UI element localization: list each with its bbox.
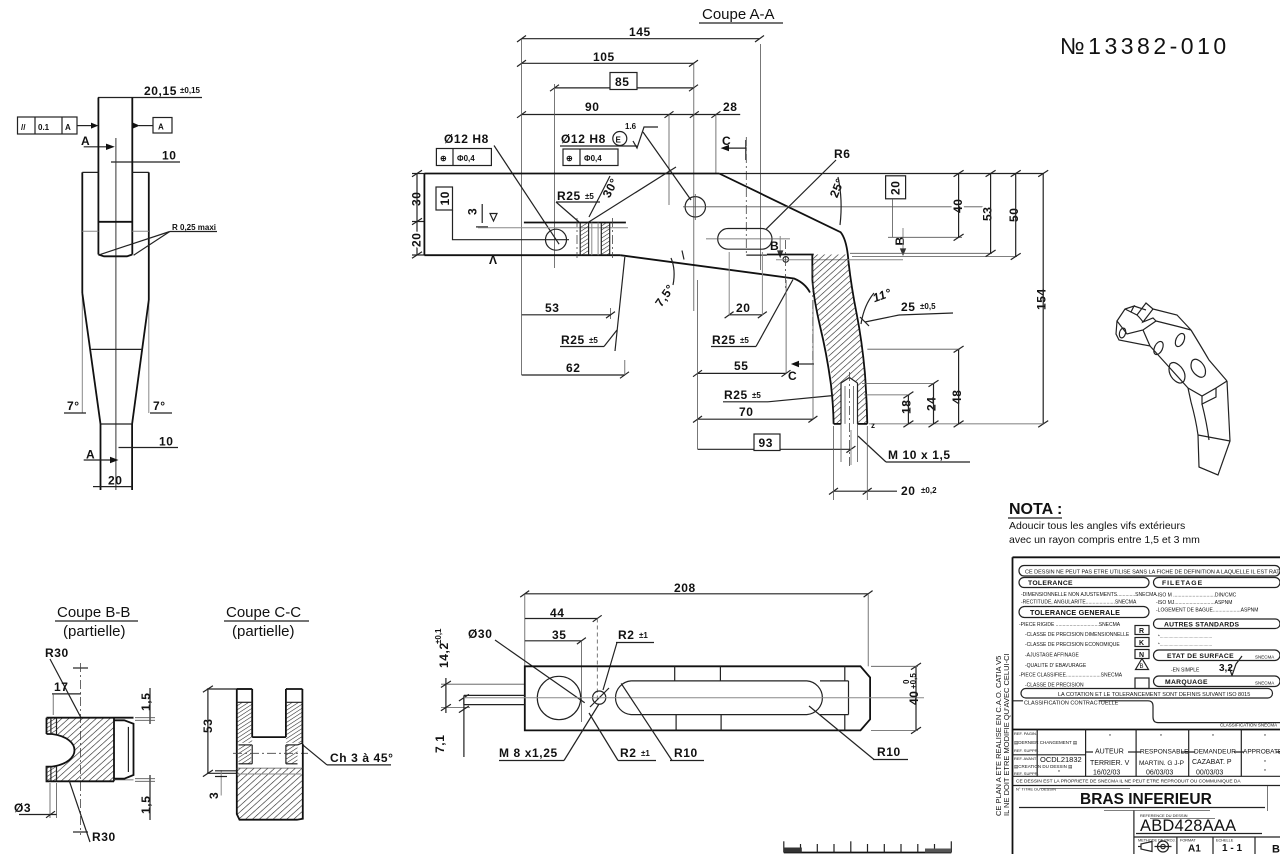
svg-text:3: 3 bbox=[466, 208, 480, 215]
label R25 ±5 third bbox=[711, 280, 793, 348]
dimension 25 ±0,5 bbox=[860, 300, 953, 326]
datum A box bbox=[132, 118, 172, 134]
svg-text:R 0,25 maxi: R 0,25 maxi bbox=[172, 223, 216, 232]
label M 8 x1,25 with leader bbox=[499, 704, 599, 761]
svg-text:ABD428AAA: ABD428AAA bbox=[1140, 817, 1236, 835]
hole Ø12 right bbox=[683, 194, 990, 220]
side rotated text CATIA note bbox=[994, 653, 1011, 816]
dimension 20 bottom bbox=[93, 474, 132, 488]
svg-text:1,5: 1,5 bbox=[139, 796, 153, 814]
dimension 208 bbox=[520, 581, 872, 666]
pocket wall ticks bbox=[675, 666, 845, 730]
dimension 90 and 28 bbox=[517, 100, 740, 118]
svg-text:*.............................: *.......................................… bbox=[1158, 642, 1212, 647]
svg-text:SNECMA: SNECMA bbox=[1255, 655, 1274, 660]
svg-text:N° TITRE DU DESSIN: N° TITRE DU DESSIN bbox=[1016, 787, 1056, 792]
svg-text:CLASSIFICATION SNECMA: CLASSIFICATION SNECMA bbox=[1220, 723, 1277, 728]
svg-text:*: * bbox=[1264, 760, 1266, 766]
svg-text:R25: R25 bbox=[561, 333, 585, 347]
oblong slot bbox=[706, 229, 790, 250]
DEMANDEUR cell bbox=[1192, 734, 1236, 777]
face lower-left edge bbox=[1150, 346, 1188, 388]
dimension 50 vertical bbox=[1007, 170, 1021, 260]
svg-text:ETAT DE SURFACE: ETAT DE SURFACE bbox=[1167, 653, 1234, 660]
svg-text:A: A bbox=[81, 134, 90, 148]
svg-text:REF. SUPPR.: REF. SUPPR. bbox=[1014, 771, 1039, 776]
svg-text:FORMAT: FORMAT bbox=[1180, 839, 1196, 843]
view: Coupe A-A section bbox=[410, 6, 1049, 500]
break line bbox=[91, 348, 142, 350]
svg-text:R10: R10 bbox=[674, 746, 698, 760]
svg-text:-ISO MJ.......................: -ISO MJ.............................ASPN… bbox=[1156, 600, 1232, 606]
dimension 1,5 bottom right bbox=[135, 775, 155, 820]
svg-text:-RECTITUDE, ANGULARITE........: -RECTITUDE, ANGULARITE..................… bbox=[1021, 600, 1137, 606]
B-B cutting trace gray bbox=[776, 259, 903, 261]
svg-text:35: 35 bbox=[552, 628, 567, 642]
part number No 13382-010 bbox=[1060, 33, 1230, 59]
svg-text:-PIECE CLASSIFIEE.............: -PIECE CLASSIFIEE.......................… bbox=[1019, 673, 1123, 679]
svg-text:R: R bbox=[1139, 628, 1144, 635]
svg-text:208: 208 bbox=[674, 581, 696, 595]
extension lines top dims bbox=[522, 39, 761, 375]
APPROBATEUR cell bbox=[1243, 734, 1280, 775]
svg-text:48: 48 bbox=[950, 389, 964, 404]
svg-text:⊕: ⊕ bbox=[440, 154, 447, 163]
svg-text:20: 20 bbox=[901, 484, 916, 498]
svg-text:53: 53 bbox=[981, 206, 995, 221]
AUTEUR cell bbox=[1090, 734, 1130, 777]
outer borders bbox=[1013, 556, 1280, 558]
svg-text:APPROBATE: APPROBATE bbox=[1243, 749, 1280, 756]
svg-text:Coupe B-B: Coupe B-B bbox=[57, 604, 130, 621]
dimension 48 vertical bbox=[867, 346, 964, 427]
label Ø30 with leader bbox=[468, 627, 585, 703]
TOLERANCE GENERALE pill bbox=[1019, 607, 1149, 618]
svg-text:3: 3 bbox=[207, 792, 221, 799]
svg-text:Ø3: Ø3 bbox=[14, 801, 31, 815]
dimension boxed 93 bbox=[698, 430, 856, 465]
hatch band 1 bbox=[580, 223, 588, 256]
RESPONSABLE cell bbox=[1139, 734, 1189, 777]
svg-text:CLASSIFICATION CONTRACTUELLE: CLASSIFICATION CONTRACTUELLE bbox=[1024, 701, 1119, 707]
svg-text:-LOGEMENT DE BAGUE............: -LOGEMENT DE BAGUE....................AS… bbox=[1156, 608, 1258, 614]
extension lines gray vertical bbox=[82, 293, 149, 413]
svg-text:*: * bbox=[1264, 769, 1266, 775]
svg-text:7,1: 7,1 bbox=[433, 735, 447, 753]
taper edges 7deg bbox=[82, 293, 149, 424]
dimension 30 vert left bbox=[410, 170, 425, 258]
svg-text:±0,15: ±0,15 bbox=[180, 86, 201, 95]
section B arrow 2 bbox=[893, 228, 907, 256]
svg-text:MARTIN. G J-P: MARTIN. G J-P bbox=[1139, 760, 1184, 767]
svg-text:*: * bbox=[1264, 734, 1266, 740]
dimension 18 vertical bbox=[864, 392, 914, 428]
svg-text:K: K bbox=[1139, 640, 1144, 647]
svg-text:LA COTATION ET LE TOLERANCEMEN: LA COTATION ET LE TOLERANCEMENT SONT DEF… bbox=[1058, 692, 1250, 698]
part outline: center column bbox=[98, 98, 132, 255]
section centerline bbox=[80, 663, 82, 835]
table left column texts bbox=[1014, 731, 1082, 776]
svg-text:00/03/03: 00/03/03 bbox=[1196, 770, 1223, 777]
svg-text:Coupe A-A: Coupe A-A bbox=[702, 6, 775, 23]
svg-text:(partielle): (partielle) bbox=[63, 623, 126, 640]
svg-text:REF. PAGIN.: REF. PAGIN. bbox=[1014, 731, 1037, 736]
dimension 7,1 bbox=[433, 694, 469, 757]
label M 10 x 1,5 bbox=[841, 421, 970, 462]
svg-text:-PIECE RIGIDE ................: -PIECE RIGIDE ..........................… bbox=[1019, 622, 1121, 628]
svg-text:⊕: ⊕ bbox=[566, 154, 573, 163]
svg-text:*: * bbox=[1160, 734, 1162, 740]
label R2 ±1 top with leader bbox=[603, 628, 654, 690]
svg-text:MARQUAGE: MARQUAGE bbox=[1165, 679, 1208, 686]
svg-text:FILETAGE: FILETAGE bbox=[1162, 580, 1203, 587]
boxed 10 with leader bbox=[436, 187, 546, 240]
svg-text:Ø12 H8: Ø12 H8 bbox=[561, 132, 606, 146]
svg-text:40: 40 bbox=[907, 690, 921, 705]
svg-text:M 10 x 1,5: M 10 x 1,5 bbox=[888, 448, 951, 462]
svg-text:55: 55 bbox=[734, 359, 749, 373]
svg-text:R25: R25 bbox=[557, 189, 581, 203]
hatch band 2 bbox=[601, 223, 609, 256]
svg-text:90: 90 bbox=[585, 100, 600, 114]
right boss outline bbox=[114, 718, 134, 782]
dimension 20 mid bbox=[725, 252, 767, 318]
svg-text:18: 18 bbox=[900, 399, 914, 414]
svg-text:±0,5: ±0,5 bbox=[920, 302, 936, 311]
svg-text:-ISO M .......................: -ISO M ..............................DIN… bbox=[1156, 593, 1237, 599]
MARQUAGE pill bbox=[1154, 676, 1280, 687]
label R25 ±5 second bbox=[560, 330, 617, 347]
right edge curving down bbox=[1191, 330, 1227, 381]
svg-text:▤CREATION DU DESSIN ▤: ▤CREATION DU DESSIN ▤ bbox=[1014, 764, 1073, 769]
bottom cells bbox=[1134, 837, 1280, 854]
slot bottom with chamfer bbox=[98, 255, 132, 257]
scale bar bbox=[784, 841, 952, 852]
ETAT DE SURFACE pill bbox=[1154, 650, 1280, 661]
ISO 8015 pill bbox=[1021, 689, 1273, 699]
svg-text:*.............................: *.......................................… bbox=[1158, 634, 1212, 639]
drawing title BRAS INFERIEUR bbox=[1016, 786, 1268, 811]
tolerance rows bbox=[1021, 592, 1157, 606]
svg-text://: // bbox=[21, 123, 26, 132]
11 deg label bbox=[861, 286, 893, 324]
svg-text:NOTA :: NOTA : bbox=[1009, 501, 1062, 518]
feature control frame //|0.1|A bbox=[18, 117, 99, 134]
svg-text:R2: R2 bbox=[618, 628, 635, 642]
svg-text:RESPONSABLE: RESPONSABLE bbox=[1140, 749, 1189, 756]
dimension 14,2 ±0,1 bbox=[434, 628, 525, 713]
section arrow A top bbox=[81, 134, 115, 150]
svg-text:20,15: 20,15 bbox=[144, 84, 177, 98]
3D isometric view of part bbox=[1116, 303, 1230, 475]
svg-text:M 8 x1,25: M 8 x1,25 bbox=[499, 746, 558, 760]
svg-text:7°: 7° bbox=[67, 399, 80, 413]
svg-text:70: 70 bbox=[739, 405, 754, 419]
svg-text:+0,5: +0,5 bbox=[909, 673, 918, 689]
svg-text:145: 145 bbox=[629, 25, 651, 39]
svg-text:±5: ±5 bbox=[752, 391, 761, 400]
svg-text:z: z bbox=[871, 421, 875, 430]
svg-text:REF. AVANT: REF. AVANT bbox=[1014, 756, 1037, 761]
middle notch bbox=[1188, 381, 1227, 396]
svg-text:85: 85 bbox=[615, 75, 630, 89]
svg-text:-CLASSE DE PRECISION: -CLASSE DE PRECISION bbox=[1025, 683, 1084, 689]
dimension 44 bbox=[525, 606, 602, 700]
dimension 35 bbox=[525, 628, 586, 722]
dimension 20 ±0,2 bbox=[829, 426, 937, 500]
svg-text:±1: ±1 bbox=[639, 631, 648, 640]
svg-text:*: * bbox=[1212, 734, 1214, 740]
label R2 ±1 bottom with leader bbox=[589, 713, 656, 761]
property band bbox=[1013, 779, 1280, 786]
svg-text:R25: R25 bbox=[724, 388, 748, 402]
clevis slot top bold line bbox=[524, 222, 626, 224]
dimension 10 bottom bbox=[119, 435, 179, 449]
dimension boxed 20 vertical bbox=[886, 176, 962, 238]
svg-text:20: 20 bbox=[108, 474, 123, 488]
slot pocket bbox=[615, 681, 848, 715]
svg-text:20: 20 bbox=[410, 232, 424, 247]
label R6 with leader bbox=[766, 147, 850, 229]
7,5 deg label with arc bbox=[652, 251, 684, 310]
svg-text:±1: ±1 bbox=[641, 749, 650, 758]
svg-text:AUTRES STANDARDS: AUTRES STANDARDS bbox=[1164, 622, 1239, 629]
svg-text:7°: 7° bbox=[153, 399, 166, 413]
svg-text:▤DERNIER CHANGEMENT ▤: ▤DERNIER CHANGEMENT ▤ bbox=[1014, 740, 1078, 745]
dimension Ø8 bbox=[14, 783, 57, 818]
dimension boxed 85 bbox=[550, 73, 698, 92]
chamfer detail bbox=[298, 743, 303, 745]
slot inner line bbox=[98, 221, 132, 223]
left tube hidden lines bbox=[464, 695, 525, 704]
hole Ø30 bbox=[537, 676, 580, 719]
svg-text:A: A bbox=[158, 123, 164, 132]
label Ø12 H8 left with position frame bbox=[436, 132, 559, 244]
svg-text:TERRIER. V: TERRIER. V bbox=[1090, 760, 1130, 767]
label R 0,25 maxi with leaders bbox=[100, 223, 217, 255]
left leg taper lines bbox=[611, 257, 625, 351]
bottom stem bbox=[101, 424, 133, 490]
svg-text:1 - 1: 1 - 1 bbox=[1222, 843, 1242, 854]
svg-text:±0,2: ±0,2 bbox=[921, 486, 937, 495]
svg-text:CE DESSIN NE PEUT PAS ETRE UTI: CE DESSIN NE PEUT PAS ETRE UTILISE SANS … bbox=[1025, 570, 1280, 576]
dimension 3 bbox=[207, 770, 237, 799]
svg-text:154: 154 bbox=[1035, 288, 1049, 310]
svg-text:B: B bbox=[1272, 844, 1280, 854]
general tolerance rows bbox=[1019, 622, 1130, 689]
svg-text:R30: R30 bbox=[92, 830, 116, 844]
small hole M8 bbox=[590, 688, 609, 707]
right column bbox=[286, 689, 303, 744]
left column bbox=[237, 689, 252, 768]
dimension 53 bbox=[201, 686, 251, 777]
dimension 105 bbox=[517, 50, 698, 67]
section C arrow top bbox=[721, 134, 747, 160]
svg-text:DEMANDEUR: DEMANDEUR bbox=[1194, 749, 1236, 756]
svg-text:Coupe C-C: Coupe C-C bbox=[226, 604, 301, 621]
svg-text:10: 10 bbox=[162, 149, 177, 163]
svg-text:±5: ±5 bbox=[585, 192, 594, 201]
svg-text:-CLASSE DE PRECISION ECONOMIQU: -CLASSE DE PRECISION ECONOMIQUE bbox=[1025, 642, 1120, 648]
svg-text:METHODE DE PROJ.: METHODE DE PROJ. bbox=[1138, 839, 1176, 843]
hidden lines between hatches bbox=[577, 218, 613, 258]
label R10 left with leader bbox=[621, 683, 704, 760]
svg-text:OCDL21832: OCDL21832 bbox=[1040, 755, 1082, 764]
dimension 55 bbox=[693, 280, 791, 377]
dimension 7 deg right bbox=[150, 399, 172, 413]
svg-text:SNECMA: SNECMA bbox=[1255, 681, 1274, 686]
svg-text:ECHELLE: ECHELLE bbox=[1216, 839, 1234, 843]
table separator thick bbox=[1013, 729, 1280, 731]
svg-text:50: 50 bbox=[1007, 207, 1021, 222]
section arrow A bottom bbox=[84, 448, 119, 464]
svg-text:Ch 3 à 45°: Ch 3 à 45° bbox=[330, 751, 394, 765]
svg-text:06/03/03: 06/03/03 bbox=[1146, 770, 1173, 777]
signature table grid bbox=[1013, 730, 1280, 777]
svg-text:TOLERANCE GENERALE: TOLERANCE GENERALE bbox=[1030, 608, 1120, 617]
svg-text:Adoucir tous les angles vifs e: Adoucir tous les angles vifs extérieurs bbox=[1009, 520, 1185, 532]
svg-text:10: 10 bbox=[438, 191, 452, 206]
dimension 53 vertical bbox=[981, 170, 996, 256]
view: Coupe C-C bbox=[201, 604, 394, 820]
svg-text:-EN SIMPLE: -EN SIMPLE bbox=[1171, 668, 1200, 674]
body top edge bbox=[1153, 309, 1191, 330]
AUTRES STANDARDS pill bbox=[1154, 619, 1280, 629]
svg-text:(partielle): (partielle) bbox=[232, 623, 295, 640]
centerline C-C bbox=[233, 752, 308, 754]
face ellipses/slots bbox=[1152, 340, 1165, 356]
svg-text:93: 93 bbox=[759, 436, 774, 450]
30 deg line and arc bbox=[588, 167, 676, 223]
dimension 7 deg left bbox=[64, 399, 86, 413]
dimension 40 +0,5/0 bbox=[871, 663, 921, 734]
title block bbox=[1013, 557, 1280, 854]
svg-text:±0,1: ±0,1 bbox=[434, 628, 443, 644]
view: Coupe B-B bbox=[14, 604, 155, 844]
centerline bbox=[115, 138, 117, 490]
B-B outline bbox=[47, 718, 134, 782]
section C arrow bottom bbox=[786, 240, 814, 383]
svg-text:*: * bbox=[1109, 734, 1111, 740]
svg-text:17: 17 bbox=[54, 680, 69, 694]
svg-text:105: 105 bbox=[593, 50, 615, 64]
clevis top bbox=[1117, 303, 1156, 334]
svg-text:R25: R25 bbox=[712, 333, 736, 347]
bottom block bbox=[237, 744, 303, 820]
label Ch 3 à 45° with leader bbox=[303, 745, 394, 765]
25 deg arc and label bbox=[827, 176, 847, 225]
svg-text:A1: A1 bbox=[1188, 844, 1201, 854]
projection symbol bbox=[1141, 842, 1152, 852]
svg-text:TOLERANCE: TOLERANCE bbox=[1028, 580, 1073, 587]
svg-text:CE DESSIN EST LA PROPRIETE DE: CE DESSIN EST LA PROPRIETE DE SNECMA IL … bbox=[1016, 779, 1241, 785]
lower leg hatched region bbox=[812, 255, 867, 424]
svg-text:avec un rayon compris entre 1,: avec un rayon compris entre 1,5 et 3 mm bbox=[1009, 534, 1200, 546]
svg-text:BRAS INFERIEUR: BRAS INFERIEUR bbox=[1080, 791, 1212, 808]
label R30 bottom with leader bbox=[69, 781, 116, 844]
hole Ø12 in section bbox=[545, 229, 569, 250]
svg-text:B: B bbox=[1140, 664, 1144, 670]
svg-text:10: 10 bbox=[159, 435, 174, 449]
svg-text:R10: R10 bbox=[877, 745, 901, 759]
bridge bbox=[239, 737, 298, 764]
svg-text:20: 20 bbox=[889, 180, 903, 195]
3,2 roughness bbox=[1171, 656, 1242, 676]
svg-text:24: 24 bbox=[925, 396, 939, 411]
label Ø12 H8 (E) center with position frame bbox=[560, 132, 637, 166]
svg-text:1.6: 1.6 bbox=[625, 122, 637, 131]
svg-text:0.1: 0.1 bbox=[38, 123, 50, 132]
dimension 24 vertical bbox=[862, 380, 939, 427]
label R25 ±5 first with leader bbox=[556, 189, 600, 222]
label R10 right with leader bbox=[809, 706, 908, 760]
main band outline bbox=[424, 174, 1043, 424]
surface finish 1.6 mark bbox=[625, 122, 691, 200]
svg-text:±5: ±5 bbox=[589, 336, 598, 345]
svg-text:IL NE DOIT ETRE MODIFIE QU'AVE: IL NE DOIT ETRE MODIFIE QU'AVEC CELUI-CI bbox=[1002, 653, 1011, 816]
leg bbox=[1191, 381, 1230, 475]
svg-text:E: E bbox=[616, 136, 622, 145]
svg-text:Ø12 H8: Ø12 H8 bbox=[444, 132, 489, 146]
svg-text:-AJUSTAGE AFFINAGE: -AJUSTAGE AFFINAGE bbox=[1025, 653, 1079, 659]
section line C-C dashdot bbox=[745, 137, 747, 255]
filetage rows bbox=[1156, 593, 1258, 614]
svg-text:A: A bbox=[65, 123, 71, 132]
dimension 154 vertical bbox=[869, 170, 1049, 427]
svg-text:R30: R30 bbox=[45, 646, 69, 660]
axis centerline bbox=[464, 697, 924, 699]
svg-text:N: N bbox=[1139, 652, 1144, 659]
title Coupe A-A bbox=[699, 6, 783, 23]
svg-text:62: 62 bbox=[566, 361, 581, 375]
svg-text:-QUALITE D' EBAVURAGE: -QUALITE D' EBAVURAGE bbox=[1025, 663, 1087, 669]
svg-text:AUTEUR: AUTEUR bbox=[1095, 749, 1124, 756]
warning pill bbox=[1019, 566, 1280, 577]
B-B hatched body bbox=[52, 718, 114, 782]
dimension 3 with surface mark bbox=[466, 204, 629, 228]
svg-text:R6: R6 bbox=[834, 147, 851, 161]
dimension 1,5 top right bbox=[135, 688, 155, 724]
label R25 ±5 fourth bbox=[723, 388, 834, 402]
section B arrow 1 bbox=[770, 236, 789, 262]
svg-text:*: * bbox=[1058, 770, 1060, 776]
dimension 145 bbox=[517, 25, 764, 42]
dimension 17 bbox=[52, 680, 81, 715]
dimension 70 bbox=[693, 280, 817, 449]
step line bbox=[767, 253, 1017, 256]
svg-text:1,5: 1,5 bbox=[139, 693, 153, 711]
svg-text:±5: ±5 bbox=[740, 336, 749, 345]
svg-text:25: 25 bbox=[901, 300, 916, 314]
view: left elevation of part bbox=[18, 84, 218, 490]
part outline: outer shoulders bbox=[82, 172, 149, 300]
svg-text:20: 20 bbox=[736, 301, 751, 315]
dimension 53 mid bbox=[522, 301, 615, 318]
label R30 top with leader bbox=[45, 646, 88, 718]
dimension 62 bbox=[522, 360, 629, 378]
svg-text:№13382-010: №13382-010 bbox=[1060, 33, 1230, 59]
svg-text:16/02/03: 16/02/03 bbox=[1093, 770, 1120, 777]
svg-text:53: 53 bbox=[545, 301, 560, 315]
svg-text:14,2: 14,2 bbox=[437, 642, 451, 668]
svg-text:CAZABAT. P: CAZABAT. P bbox=[1192, 759, 1232, 766]
R K N boxes bbox=[1135, 626, 1149, 689]
svg-text:28: 28 bbox=[723, 100, 738, 114]
dimension 40 vertical bbox=[951, 170, 965, 240]
svg-text:R2: R2 bbox=[620, 746, 637, 760]
dimension 20,15 ±0,15 bbox=[98, 84, 202, 98]
svg-text:-DIMENSIONNELLE NON AJUSTEMENT: -DIMENSIONNELLE NON AJUSTEMENTS.........… bbox=[1021, 592, 1157, 598]
